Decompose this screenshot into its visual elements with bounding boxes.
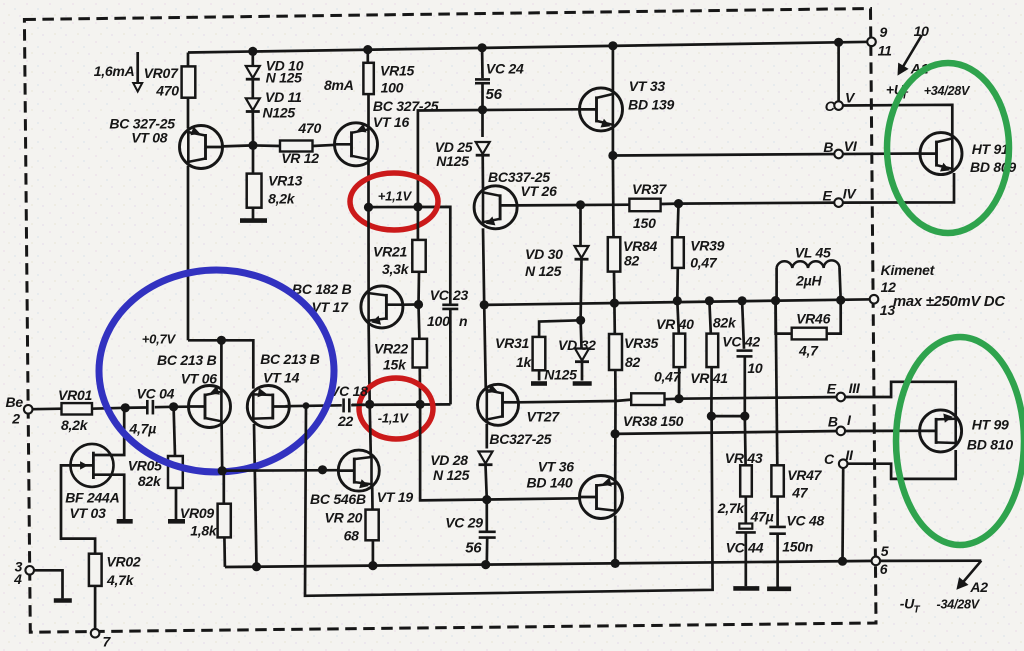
svg-text:VL 45: VL 45 <box>795 245 831 261</box>
svg-text:BC 213 B: BC 213 B <box>157 352 217 368</box>
node VT33 emitter <box>608 151 617 160</box>
svg-text:VT 06: VT 06 <box>181 371 218 387</box>
terminal 3 4 <box>25 566 34 575</box>
svg-text:VT 33: VT 33 <box>629 78 666 94</box>
svg-text:IV: IV <box>843 186 858 202</box>
arrow A2 <box>959 561 982 588</box>
diode VD25 <box>481 110 484 137</box>
transistor VT19 <box>338 450 379 491</box>
svg-text:2: 2 <box>11 411 20 427</box>
wire VT08 collector down to +0.7V rail <box>187 166 190 341</box>
wire C-II to HT99 <box>848 450 956 479</box>
transistor HT99 <box>920 410 962 452</box>
svg-text:N 125: N 125 <box>525 263 562 279</box>
capacitor VC18 <box>342 398 345 412</box>
diode VD32 <box>579 320 583 348</box>
svg-text:4,7: 4,7 <box>798 342 819 358</box>
wire VT16 collector to +1.1V node <box>367 160 370 207</box>
svg-text:VR01: VR01 <box>58 387 92 403</box>
wire VT14 collector to negative rail <box>254 424 257 567</box>
svg-text:VT 14: VT 14 <box>263 370 300 386</box>
resistor VR02 <box>89 554 102 586</box>
svg-text:VD 28: VD 28 <box>430 452 468 468</box>
node rail-VC29 <box>481 560 490 569</box>
diode VD28 <box>485 424 488 449</box>
svg-text:8,2k: 8,2k <box>268 190 296 206</box>
terminal B VI <box>834 150 843 159</box>
svg-text:VR21: VR21 <box>373 244 407 260</box>
wire -1.1V <box>352 403 451 406</box>
node output-VR41 <box>705 296 714 305</box>
wire E-IV line <box>679 203 839 204</box>
wire top supply rail <box>188 42 872 53</box>
svg-text:HT 91: HT 91 <box>972 141 1009 157</box>
wire E-III left <box>616 400 632 401</box>
svg-text:82: 82 <box>624 253 640 269</box>
svg-text:100: 100 <box>427 313 450 329</box>
node VT08 base <box>248 141 257 150</box>
wire VT26 emitter chain <box>483 228 484 305</box>
resistor VR13 <box>252 145 255 173</box>
node rail-VR15 <box>363 45 372 54</box>
svg-text:22: 22 <box>337 413 354 429</box>
node VT06 collector <box>218 466 227 475</box>
terminal 5 6 <box>872 557 881 566</box>
wire VT17 emitter from +1.1V <box>367 207 370 291</box>
resistor VR20 <box>371 486 374 510</box>
svg-text:6: 6 <box>880 561 888 577</box>
wire C-V drop <box>837 42 840 105</box>
svg-text:VC 29: VC 29 <box>445 514 483 530</box>
resistor VR12 horizontal <box>253 144 280 147</box>
transistor VT36 <box>580 476 623 519</box>
resistor VR46 horizontal <box>776 301 792 334</box>
wire VT06 collector <box>220 424 223 471</box>
node E-III VR40 <box>674 394 683 403</box>
svg-text:3,3k: 3,3k <box>382 261 410 277</box>
wire VT26 base to E-IV <box>517 203 629 206</box>
svg-text:BD 810: BD 810 <box>967 437 1013 453</box>
capacitor VC29 <box>485 500 488 531</box>
svg-text:N125: N125 <box>436 153 469 169</box>
svg-text:VR22: VR22 <box>374 341 408 357</box>
svg-text:VR37: VR37 <box>632 181 667 197</box>
svg-text:12: 12 <box>881 279 897 295</box>
svg-text:1,8k: 1,8k <box>190 523 218 539</box>
node +1.1V right <box>413 202 422 211</box>
svg-text:BC 546B: BC 546B <box>310 491 366 507</box>
svg-text:VR 12: VR 12 <box>281 150 319 166</box>
svg-text:11: 11 <box>878 42 892 58</box>
terminal 7 <box>91 629 100 638</box>
svg-text:HT 99: HT 99 <box>972 417 1009 433</box>
svg-text:4: 4 <box>13 571 22 587</box>
node rail-VD10 <box>248 47 257 56</box>
svg-text:1,6mA: 1,6mA <box>94 63 135 79</box>
wire C to HT91 collector <box>843 105 952 135</box>
svg-text:N125: N125 <box>544 367 577 383</box>
wire output rail <box>484 299 874 305</box>
capacitor VC48 <box>769 526 786 529</box>
svg-text:VR38 150: VR38 150 <box>623 413 684 429</box>
svg-text:VC 44: VC 44 <box>726 540 764 556</box>
resistor VR47 <box>776 301 778 466</box>
ground below VR13 <box>240 218 267 223</box>
ground below VR05 <box>168 519 185 524</box>
svg-text:47: 47 <box>791 484 809 500</box>
svg-text:5: 5 <box>881 543 889 559</box>
diode VD30 <box>579 205 582 246</box>
wire VT36 emitter <box>614 516 617 564</box>
svg-text:E: E <box>827 380 837 396</box>
svg-text:VT27: VT27 <box>527 409 561 425</box>
resistor VR39 <box>678 204 679 238</box>
svg-text:10: 10 <box>747 360 763 376</box>
wire rail outside <box>880 559 981 562</box>
svg-text:1k: 1k <box>516 354 533 370</box>
svg-text:+34/28V: +34/28V <box>924 84 971 98</box>
node VC04-VR05 <box>169 402 178 411</box>
wire VT17 collector to -1.1V <box>369 324 370 405</box>
wire VT03 source <box>94 475 124 520</box>
annotation green ellipse HT91 <box>887 63 1009 233</box>
svg-text:BF 244A: BF 244A <box>65 490 119 506</box>
diode VD10 <box>251 51 254 66</box>
transistor VT06 <box>189 386 231 428</box>
resistor VR09 <box>222 471 225 504</box>
svg-text:BC 213 B: BC 213 B <box>260 351 320 367</box>
node output-VC42 <box>738 296 747 305</box>
svg-text:4,7k: 4,7k <box>106 572 135 588</box>
svg-text:8mA: 8mA <box>324 77 354 93</box>
svg-text:Be: Be <box>6 394 24 410</box>
wire negative rail <box>225 561 876 567</box>
svg-text:VR 41: VR 41 <box>690 370 728 386</box>
svg-text:56: 56 <box>465 539 482 556</box>
wire VT26-VT27 link <box>484 305 486 390</box>
resistor VR41 <box>709 301 710 334</box>
diode VD11 <box>251 80 254 99</box>
svg-text:N 125: N 125 <box>266 70 303 86</box>
svg-text:BC327-25: BC327-25 <box>489 431 551 447</box>
svg-text:0,47: 0,47 <box>654 369 682 385</box>
inductor VL45 <box>775 268 778 301</box>
svg-text:VR31: VR31 <box>495 335 529 351</box>
svg-text:max ±250mV DC: max ±250mV DC <box>893 294 1005 310</box>
ground below VC44 <box>733 586 759 591</box>
svg-text:VC 48: VC 48 <box>786 513 824 529</box>
svg-text:470: 470 <box>155 83 179 99</box>
wire B-VI line <box>613 154 920 156</box>
svg-text:23: 23 <box>452 287 469 303</box>
capacitor VC24 <box>481 48 484 78</box>
svg-text:C: C <box>824 451 835 467</box>
wire VT14 base <box>286 404 342 408</box>
svg-text:VR39: VR39 <box>690 237 724 253</box>
ground below VT03 <box>117 519 133 524</box>
svg-text:B: B <box>823 139 833 155</box>
svg-text:-34/28V: -34/28V <box>937 598 981 612</box>
svg-text:VD 30: VD 30 <box>525 246 563 262</box>
svg-text:9: 9 <box>880 24 888 40</box>
resistor VR37 horizontal <box>629 199 660 212</box>
capacitor VC04 <box>125 406 146 409</box>
current arrow 1.6mA <box>136 52 139 83</box>
svg-text:BC 182 B: BC 182 B <box>292 281 352 297</box>
svg-text:VD 11: VD 11 <box>265 89 302 105</box>
svg-text:+0,7V: +0,7V <box>142 332 177 347</box>
svg-text:82k: 82k <box>713 315 737 331</box>
svg-text:A2: A2 <box>969 579 988 595</box>
resistor VR22 <box>417 305 421 339</box>
node input-drain <box>121 403 130 412</box>
node rail-VR20 <box>368 561 377 570</box>
wire B-I line <box>615 431 841 434</box>
svg-text:VR13: VR13 <box>268 173 302 189</box>
svg-text:470: 470 <box>297 120 321 136</box>
transistor VT33 <box>580 88 623 131</box>
svg-text:BD 139: BD 139 <box>628 97 674 113</box>
ground below VC48 <box>767 586 791 591</box>
node on VT19 base wire <box>318 465 327 474</box>
wire +1.1V <box>369 207 451 304</box>
transistor VT14 <box>247 386 289 428</box>
ground terminal34 <box>54 598 72 603</box>
node feedback tap <box>303 402 310 409</box>
wire VR41-VC42 join <box>711 415 744 418</box>
svg-text:82k: 82k <box>138 473 162 489</box>
svg-text:VR07: VR07 <box>144 65 179 81</box>
svg-text:82: 82 <box>625 354 641 370</box>
svg-text:15k: 15k <box>383 357 407 373</box>
svg-text:150n: 150n <box>782 538 813 554</box>
node -1.1V right <box>416 400 425 409</box>
terminal E IV <box>834 198 843 207</box>
svg-text:VT 26: VT 26 <box>521 183 558 199</box>
svg-text:2µH: 2µH <box>795 272 822 288</box>
svg-text:VR09: VR09 <box>180 505 214 521</box>
node B-I start <box>611 429 620 438</box>
transistor VT17 <box>361 286 403 328</box>
transistor HT91 <box>920 133 962 175</box>
svg-text:VD 32: VD 32 <box>558 337 596 353</box>
wire E-III line <box>679 397 841 399</box>
svg-text:E: E <box>823 187 833 203</box>
svg-text:VT 36: VT 36 <box>538 459 575 475</box>
svg-text:III: III <box>849 380 861 396</box>
capacitor VC44 electrolytic <box>739 524 752 529</box>
node -1.1V left <box>365 400 374 409</box>
wire VT33 collector <box>612 46 615 93</box>
wire -1.1V to VT36 base <box>420 404 580 500</box>
node VD28 bottom <box>482 495 491 504</box>
transistor VT26 <box>474 186 517 229</box>
node rail-CV <box>834 38 843 47</box>
node rail-VT33 <box>608 41 617 50</box>
node join-VC42 <box>740 412 749 421</box>
svg-text:VR46: VR46 <box>796 310 830 326</box>
svg-text:VT 08: VT 08 <box>131 130 168 146</box>
svg-text:VR 40: VR 40 <box>656 316 694 332</box>
svg-text:VI: VI <box>844 138 858 154</box>
wire VT08 base <box>223 145 254 146</box>
svg-text:VR 43: VR 43 <box>725 450 763 466</box>
transistor VT08 <box>180 126 223 169</box>
svg-text:47µ: 47µ <box>750 509 774 525</box>
node join-VR41 <box>707 412 716 421</box>
svg-text:VR47: VR47 <box>787 467 822 483</box>
resistor VR43 <box>743 416 746 465</box>
wire +0.7V rail <box>188 340 253 388</box>
node output-VR84 <box>610 299 619 308</box>
svg-text:0,47: 0,47 <box>690 254 718 270</box>
wire VT03 drain <box>94 409 124 456</box>
terminal C V <box>834 101 843 110</box>
node output-VR39 <box>673 296 682 305</box>
resistor VR07 <box>187 53 190 67</box>
svg-text:C: C <box>825 98 836 114</box>
node VD30 top <box>576 200 585 209</box>
resistor VR38 horizontal <box>631 393 664 405</box>
node rail-CII <box>838 557 847 566</box>
capacitor VC42 <box>742 301 744 349</box>
terminal 9 11 <box>867 38 876 47</box>
svg-text:56: 56 <box>486 86 503 103</box>
svg-text:VR02: VR02 <box>106 553 140 569</box>
wire terminal34 to ground <box>34 570 63 598</box>
wire VT03 gate <box>61 465 95 553</box>
terminal E III <box>837 393 846 402</box>
svg-text:-1,1V: -1,1V <box>378 411 409 426</box>
svg-text:VC 42: VC 42 <box>722 334 760 350</box>
node VT06 emitter rail <box>217 336 226 345</box>
wire input <box>33 407 62 410</box>
transistor VT03 JFET <box>71 444 114 487</box>
node VR39 top <box>674 199 683 208</box>
bar under VR31 <box>531 381 547 386</box>
resistor VR31 <box>539 320 581 337</box>
wire feedback line <box>305 406 713 596</box>
terminal B I <box>837 427 846 436</box>
resistor VR35 <box>613 303 616 334</box>
terminal Be 2 <box>24 405 33 414</box>
svg-text:VT 19: VT 19 <box>377 489 414 505</box>
transistor VT16 <box>335 123 378 166</box>
svg-text:N125: N125 <box>263 105 296 121</box>
node rail-VC24 <box>478 43 487 52</box>
annotation blue ellipse input pair <box>99 270 334 472</box>
resistor VR05 <box>174 407 175 456</box>
svg-text:VT 16: VT 16 <box>373 114 410 130</box>
dashed enclosure border <box>24 9 876 633</box>
node rail-VT14 <box>252 562 261 571</box>
node output-VL45 <box>771 296 780 305</box>
svg-text:VR84: VR84 <box>623 238 657 254</box>
node output-VL45-right <box>836 296 845 305</box>
svg-text:+1,1V: +1,1V <box>378 189 413 204</box>
wire VD11 to base node <box>251 112 254 145</box>
svg-text:B: B <box>828 414 838 430</box>
annotation red ellipse +1.1V <box>350 173 438 230</box>
svg-text:VC 24: VC 24 <box>486 60 524 76</box>
svg-text:VR15: VR15 <box>380 62 414 78</box>
wire VT06 collector node to VT19 base <box>222 469 337 472</box>
node VR21-VR22-base <box>414 300 423 309</box>
capacitor VC23 <box>442 303 458 306</box>
transistor VT27 <box>478 384 519 425</box>
svg-text:VT 17: VT 17 <box>312 299 350 315</box>
wire VT06 emitter <box>220 340 223 389</box>
wire +1.1V riser to VT33 base <box>418 109 580 207</box>
svg-text:VR 20: VR 20 <box>325 510 363 526</box>
terminal C II <box>839 459 848 468</box>
annotation green ellipse HT99 <box>896 337 1024 545</box>
wire VT33 emitter <box>612 127 615 156</box>
resistor VR01 horizontal <box>62 403 93 414</box>
node VD30-VD32 <box>576 316 585 325</box>
svg-text:VC: VC <box>430 287 450 303</box>
wire VT17 base to node <box>403 303 419 306</box>
annotation red ellipse -1.1V <box>359 378 433 439</box>
wire VT27base-VT36 column <box>614 401 617 483</box>
terminal Kimenet 12 13 <box>870 295 879 304</box>
svg-text:VC 04: VC 04 <box>137 385 175 401</box>
node output-VT26 <box>480 300 489 309</box>
svg-text:N 125: N 125 <box>433 467 470 483</box>
node +1.1V left <box>364 203 373 212</box>
svg-text:4,7µ: 4,7µ <box>129 421 157 437</box>
svg-text:100: 100 <box>381 80 404 96</box>
wire to VT06 base <box>174 405 190 408</box>
wire VT19 collector <box>370 404 371 456</box>
svg-text:n: n <box>459 313 467 329</box>
arrow A1 <box>900 35 922 73</box>
svg-text:BD 140: BD 140 <box>527 475 573 491</box>
svg-text:VT 03: VT 03 <box>70 505 107 521</box>
resistor VR84 <box>612 156 615 238</box>
resistor VR40 <box>677 301 679 334</box>
svg-text:VR35: VR35 <box>624 335 658 351</box>
svg-text:Kimenet: Kimenet <box>881 262 936 278</box>
bar under VD32 <box>573 381 592 386</box>
resistor VR15 <box>366 50 369 63</box>
resistor VR21 <box>417 207 420 240</box>
svg-text:2,7k: 2,7k <box>717 500 746 516</box>
wire C-II down to negative rail <box>841 468 844 561</box>
svg-text:68: 68 <box>344 527 360 543</box>
node rail-VT36 <box>611 559 620 568</box>
svg-text:8,2k: 8,2k <box>61 417 89 433</box>
node VC24 bottom <box>478 105 487 114</box>
wire VT27 base <box>518 401 615 402</box>
svg-text:150: 150 <box>633 215 656 231</box>
